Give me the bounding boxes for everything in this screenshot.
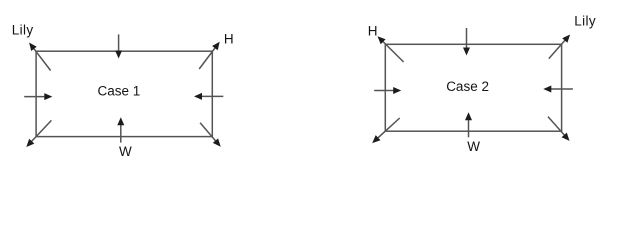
svg-text:H: H: [224, 31, 234, 46]
bottom-edge inward arrow W (Case 2): [465, 112, 472, 137]
svg-text:W: W: [119, 144, 132, 159]
left-edge inward arrow (Case 2): [374, 87, 401, 94]
svg-text:Case 1: Case 1: [98, 83, 141, 98]
bottom-right corner diagonal arrow (Case 1): [200, 123, 221, 147]
left-edge inward arrow (Case 1): [24, 93, 52, 100]
top-right corner diagonal arrow to H (Case 1): [199, 42, 220, 69]
top-left corner diagonal arrow to H (Case 2): [378, 36, 404, 62]
bottom-left corner diagonal arrow (Case 1): [26, 120, 51, 147]
bottom-right corner diagonal arrow (Case 2): [548, 117, 570, 141]
svg-text:H: H: [368, 23, 378, 38]
bottom-left corner diagonal arrow (Case 2): [372, 118, 400, 143]
rectangle Case 2 outline: [385, 44, 561, 131]
top-right corner diagonal arrow to Lily (Case 2): [549, 35, 570, 59]
svg-text:Case 2: Case 2: [446, 79, 489, 94]
svg-text:Lily: Lily: [574, 14, 596, 29]
top-edge inward arrow (Case 2): [463, 28, 470, 56]
svg-text:W: W: [467, 139, 480, 154]
top-edge inward arrow (Case 1): [115, 34, 122, 58]
bottom-edge inward arrow W (Case 1): [117, 117, 124, 142]
svg-text:Lily: Lily: [12, 22, 34, 37]
right-edge inward arrow (Case 2): [543, 86, 573, 93]
right-edge inward arrow (Case 1): [194, 93, 223, 100]
rectangle Case 1 outline: [36, 51, 212, 136]
top-left corner diagonal arrow to Lily (Case 1): [29, 43, 50, 71]
